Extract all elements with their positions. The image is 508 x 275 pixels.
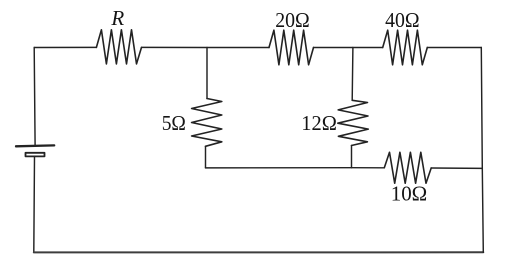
wire 5Ω branch: top rail down to 5Ω bbox=[206, 48, 208, 99]
wire: 10Ω to right branch bbox=[431, 167, 482, 169]
svg-text:20Ω: 20Ω bbox=[275, 8, 310, 32]
wire 12Ω branch: top rail down to 12Ω bbox=[351, 48, 354, 101]
wire bottom rail bbox=[34, 251, 484, 253]
battery negative plate (short thick rectangle) bbox=[26, 153, 45, 157]
svg-text:5Ω: 5Ω bbox=[162, 111, 186, 135]
resistor 20Ω bbox=[269, 30, 314, 65]
wire bottom-middle rail: 5Ω branch to 12Ω branch bbox=[206, 167, 352, 169]
wire 12Ω branch: 12Ω down to bottom-middle rail bbox=[351, 146, 353, 168]
resistor 40Ω bbox=[383, 30, 428, 65]
resistor 5Ω bbox=[192, 99, 222, 147]
resistor 12Ω bbox=[338, 100, 369, 145]
svg-text:12Ω: 12Ω bbox=[301, 111, 337, 135]
wire bottom-middle rail: 12Ω branch to 10Ω bbox=[352, 167, 385, 169]
svg-text:10Ω: 10Ω bbox=[391, 181, 428, 205]
wire top rail: 20Ω to 40Ω (junction to 12Ω branch at x=353) bbox=[314, 47, 383, 49]
resistor 10Ω bbox=[384, 152, 431, 183]
battery positive plate (long thin) bbox=[16, 144, 54, 147]
wire top rail: 40Ω to top-right corner bbox=[427, 47, 481, 49]
svg-text:R: R bbox=[110, 6, 124, 30]
wire 5Ω branch: 5Ω down to bottom-middle rail bbox=[205, 146, 207, 168]
wire left branch: battery down to bottom-left corner bbox=[33, 156, 36, 252]
wire left branch: top-left corner down to battery bbox=[33, 48, 36, 146]
svg-text:40Ω: 40Ω bbox=[385, 8, 420, 32]
wire right branch: top-right corner down to bottom-right corner (junction with 10Ω at y=168) bbox=[481, 48, 483, 253]
wire top rail: left corner to resistor R bbox=[34, 46, 96, 48]
wire top rail: R to 20Ω (junction to 5Ω branch at x=207) bbox=[142, 46, 270, 48]
resistor R bbox=[96, 30, 141, 64]
